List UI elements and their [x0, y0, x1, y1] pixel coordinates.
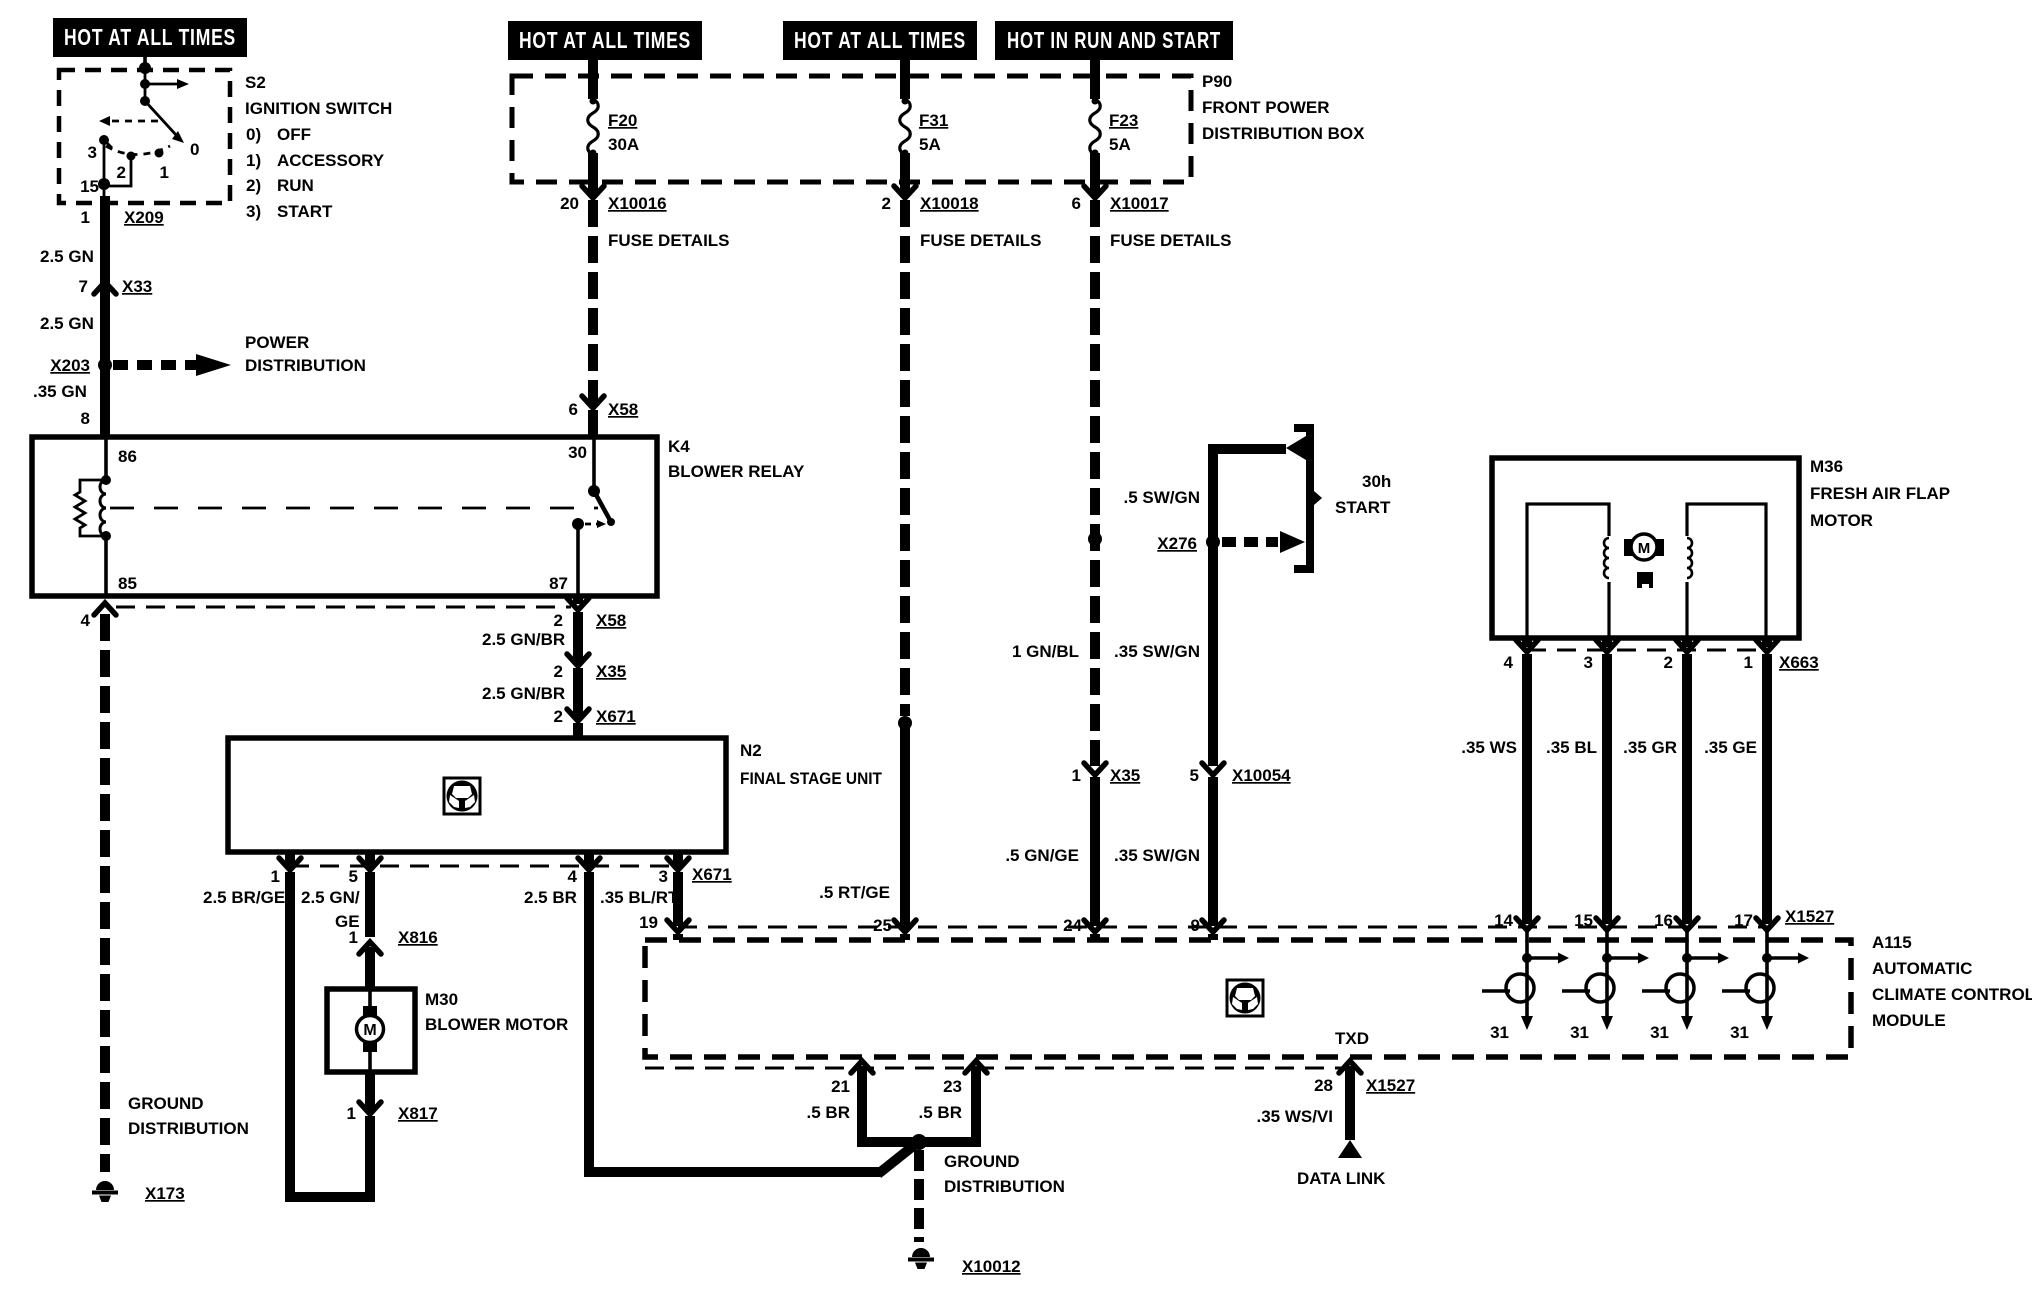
svg-text:X203: X203 [50, 356, 90, 375]
svg-text:MODULE: MODULE [1872, 1011, 1946, 1030]
svg-text:17: 17 [1734, 911, 1753, 930]
svg-text:0): 0) [246, 125, 261, 144]
svg-text:X58: X58 [608, 400, 638, 419]
svg-text:5: 5 [349, 867, 358, 886]
svg-text:15: 15 [80, 177, 99, 196]
svg-text:14: 14 [1494, 911, 1513, 930]
svg-text:ACCESSORY: ACCESSORY [277, 151, 385, 170]
svg-text:1: 1 [1072, 766, 1081, 785]
svg-text:5: 5 [1190, 766, 1199, 785]
svg-text:FRONT POWER: FRONT POWER [1202, 98, 1330, 117]
svg-text:X33: X33 [122, 277, 152, 296]
svg-text:2: 2 [554, 707, 563, 726]
svg-text:9: 9 [1191, 916, 1200, 935]
svg-text:5A: 5A [1109, 135, 1131, 154]
svg-text:X58: X58 [596, 611, 626, 630]
svg-text:85: 85 [118, 574, 137, 593]
svg-text:16: 16 [1654, 911, 1673, 930]
svg-text:DISTRIBUTION BOX: DISTRIBUTION BOX [1202, 124, 1365, 143]
svg-text:FINAL STAGE UNIT: FINAL STAGE UNIT [740, 769, 883, 788]
svg-text:M: M [363, 1022, 376, 1039]
svg-text:P90: P90 [1202, 72, 1232, 91]
svg-text:2.5 GN: 2.5 GN [40, 247, 94, 266]
svg-text:.5 BR: .5 BR [919, 1103, 962, 1122]
svg-text:3: 3 [659, 867, 668, 886]
svg-text:BLOWER RELAY: BLOWER RELAY [668, 462, 805, 481]
svg-text:X35: X35 [596, 662, 626, 681]
svg-text:FRESH AIR FLAP: FRESH AIR FLAP [1810, 484, 1950, 503]
svg-text:6: 6 [569, 400, 578, 419]
svg-text:FUSE DETAILS: FUSE DETAILS [920, 231, 1042, 250]
svg-text:.35 WS: .35 WS [1461, 738, 1517, 757]
svg-text:CLIMATE CONTROL: CLIMATE CONTROL [1872, 985, 2032, 1004]
svg-text:1: 1 [160, 163, 169, 182]
svg-text:1: 1 [1744, 653, 1753, 672]
svg-text:20: 20 [560, 194, 579, 213]
svg-text:.5 BR: .5 BR [807, 1103, 850, 1122]
svg-text:28: 28 [1314, 1076, 1333, 1095]
svg-text:19: 19 [639, 913, 658, 932]
svg-text:.35 WS/VI: .35 WS/VI [1256, 1107, 1333, 1126]
svg-text:.35 GE: .35 GE [1704, 738, 1757, 757]
svg-text:X10017: X10017 [1110, 194, 1169, 213]
svg-text:FUSE DETAILS: FUSE DETAILS [608, 231, 730, 250]
svg-text:3): 3) [246, 202, 261, 221]
svg-text:X663: X663 [1779, 653, 1819, 672]
svg-text:X816: X816 [398, 928, 438, 947]
svg-text:START: START [277, 202, 333, 221]
svg-text:2: 2 [117, 163, 126, 182]
svg-text:X817: X817 [398, 1104, 438, 1123]
svg-text:POWER: POWER [245, 333, 309, 352]
svg-text:M30: M30 [425, 990, 458, 1009]
svg-text:2.5 BR/GE: 2.5 BR/GE [203, 888, 285, 907]
svg-text:HOT AT ALL TIMES: HOT AT ALL TIMES [519, 27, 691, 53]
svg-text:30: 30 [568, 443, 587, 462]
svg-text:3: 3 [88, 143, 97, 162]
svg-text:86: 86 [118, 447, 137, 466]
svg-text:A115: A115 [1872, 933, 1912, 952]
svg-text:F31: F31 [919, 111, 948, 130]
svg-text:X671: X671 [596, 707, 636, 726]
svg-text:F23: F23 [1109, 111, 1138, 130]
svg-text:GROUND: GROUND [128, 1094, 204, 1113]
svg-text:87: 87 [549, 574, 568, 593]
svg-text:5A: 5A [919, 135, 941, 154]
svg-text:.5 SW/GN: .5 SW/GN [1123, 488, 1200, 507]
svg-text:HOT AT ALL TIMES: HOT AT ALL TIMES [794, 27, 966, 53]
svg-text:AUTOMATIC: AUTOMATIC [1872, 959, 1972, 978]
svg-text:31: 31 [1650, 1023, 1669, 1042]
svg-text:IGNITION SWITCH: IGNITION SWITCH [245, 99, 392, 118]
svg-text:DATA LINK: DATA LINK [1297, 1169, 1386, 1188]
svg-text:2: 2 [1664, 653, 1673, 672]
svg-text:HOT AT ALL TIMES: HOT AT ALL TIMES [64, 24, 236, 50]
svg-text:8: 8 [81, 409, 90, 428]
svg-text:MOTOR: MOTOR [1810, 511, 1873, 530]
svg-text:3: 3 [1584, 653, 1593, 672]
svg-text:7: 7 [79, 277, 88, 296]
svg-text:4: 4 [1504, 653, 1514, 672]
svg-text:2.5 BR: 2.5 BR [524, 888, 577, 907]
svg-text:1: 1 [81, 208, 90, 227]
svg-text:X35: X35 [1110, 766, 1140, 785]
svg-text:30A: 30A [608, 135, 639, 154]
svg-text:25: 25 [873, 916, 892, 935]
svg-text:X10016: X10016 [608, 194, 667, 213]
svg-text:OFF: OFF [277, 125, 311, 144]
svg-text:24: 24 [1063, 916, 1082, 935]
svg-text:31: 31 [1730, 1023, 1749, 1042]
svg-text:X10054: X10054 [1232, 766, 1291, 785]
svg-text:X209: X209 [124, 208, 164, 227]
svg-text:.35 BL/RT: .35 BL/RT [600, 888, 679, 907]
svg-text:2: 2 [554, 611, 563, 630]
svg-text:S2: S2 [245, 73, 266, 92]
svg-text:1: 1 [347, 1104, 356, 1123]
svg-text:HOT IN RUN AND START: HOT IN RUN AND START [1007, 27, 1221, 53]
svg-text:.35 GR: .35 GR [1623, 738, 1677, 757]
svg-text:GROUND: GROUND [944, 1152, 1020, 1171]
svg-text:30h: 30h [1362, 472, 1391, 491]
svg-text:1: 1 [349, 928, 358, 947]
svg-text:TXD: TXD [1335, 1029, 1369, 1048]
svg-text:23: 23 [943, 1077, 962, 1096]
svg-text:1: 1 [271, 867, 280, 886]
svg-text:FUSE DETAILS: FUSE DETAILS [1110, 231, 1232, 250]
svg-text:F20: F20 [608, 111, 637, 130]
svg-text:X10018: X10018 [920, 194, 979, 213]
svg-text:2: 2 [882, 194, 891, 213]
svg-text:21: 21 [831, 1077, 850, 1096]
svg-text:2.5 GN/BR: 2.5 GN/BR [482, 684, 565, 703]
svg-text:X1527: X1527 [1366, 1076, 1415, 1095]
svg-text:.5 GN/GE: .5 GN/GE [1005, 846, 1079, 865]
svg-text:0: 0 [190, 140, 199, 159]
svg-text:RUN: RUN [277, 176, 314, 195]
svg-text:DISTRIBUTION: DISTRIBUTION [128, 1119, 249, 1138]
svg-text:DISTRIBUTION: DISTRIBUTION [944, 1177, 1065, 1196]
svg-text:.5 RT/GE: .5 RT/GE [819, 883, 890, 902]
svg-text:X671: X671 [692, 865, 732, 884]
svg-text:6: 6 [1072, 194, 1081, 213]
svg-text:2: 2 [554, 662, 563, 681]
svg-text:2.5 GN/BR: 2.5 GN/BR [482, 630, 565, 649]
svg-text:4: 4 [568, 867, 578, 886]
svg-text:.35 SW/GN: .35 SW/GN [1114, 642, 1200, 661]
svg-text:X1527: X1527 [1785, 907, 1834, 926]
svg-text:2.5 GN/: 2.5 GN/ [301, 888, 360, 907]
svg-text:15: 15 [1574, 911, 1593, 930]
svg-text:X173: X173 [145, 1184, 185, 1203]
svg-text:2): 2) [246, 176, 261, 195]
svg-text:31: 31 [1490, 1023, 1509, 1042]
svg-text:.35 SW/GN: .35 SW/GN [1114, 846, 1200, 865]
svg-text:BLOWER MOTOR: BLOWER MOTOR [425, 1015, 568, 1034]
svg-text:X10012: X10012 [962, 1257, 1021, 1276]
svg-text:START: START [1335, 498, 1391, 517]
svg-text:31: 31 [1570, 1023, 1589, 1042]
svg-text:X276: X276 [1157, 534, 1197, 553]
svg-text:M36: M36 [1810, 457, 1843, 476]
svg-text:.35 BL: .35 BL [1546, 738, 1597, 757]
svg-text:1): 1) [246, 151, 261, 170]
svg-text:2.5 GN: 2.5 GN [40, 314, 94, 333]
svg-text:M: M [1638, 540, 1651, 557]
svg-text:DISTRIBUTION: DISTRIBUTION [245, 356, 366, 375]
svg-text:K4: K4 [668, 437, 690, 456]
svg-text:1 GN/BL: 1 GN/BL [1012, 642, 1079, 661]
svg-text:.35 GN: .35 GN [33, 382, 87, 401]
svg-text:N2: N2 [740, 741, 762, 760]
svg-text:4: 4 [81, 611, 91, 630]
